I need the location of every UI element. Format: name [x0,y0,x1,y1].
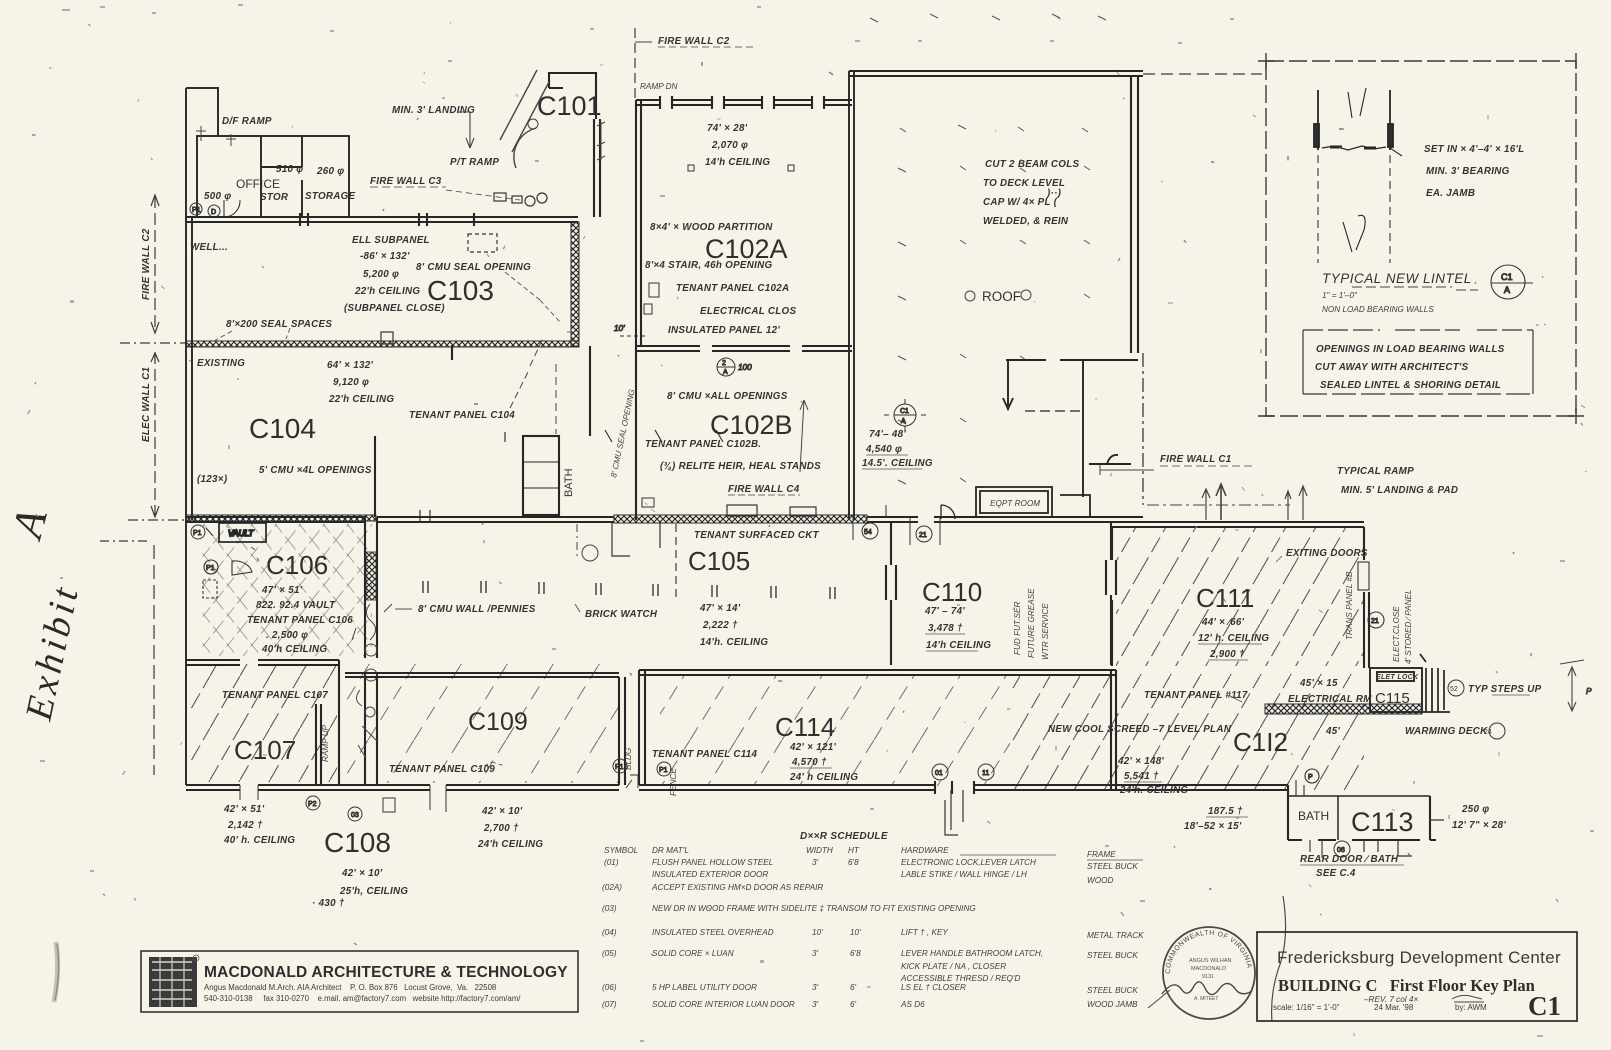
leader lines C103 [214,272,560,341]
room C110 notes [924,606,991,651]
svg-text:45' × 15: 45' × 15 [1299,678,1338,689]
svg-text:MIN. 3' LANDING: MIN. 3' LANDING [392,105,475,116]
svg-text:AS D6: AS D6 [900,1000,925,1009]
svg-text:BATH: BATH [1298,809,1329,823]
svg-text:C101: C101 [537,91,602,121]
leader arrow C105 note [395,604,580,612]
svg-text:LABLE STIKE / WALL HINGE /: LABLE STIKE / WALL HINGE / LH [901,870,1027,879]
C107 area dims [223,804,295,846]
svg-text:14'h. CEILING: 14'h. CEILING [700,637,768,648]
svg-text:4,570 †: 4,570 † [791,757,827,768]
svg-text:(04): (04) [602,928,617,937]
room C102B notes [645,391,821,495]
door swing below C114 south wall [945,790,963,835]
svg-text:(SUBPANEL CLOSE): (SUBPANEL CLOSE) [344,303,445,314]
svg-text:TYPICAL RAMP: TYPICAL RAMP [1337,466,1414,477]
svg-text:REAR DOOR ∕ BATH: REAR DOOR ∕ BATH [1300,854,1399,865]
svg-text:8'×200 SEAL SPACES: 8'×200 SEAL SPACES [226,319,332,330]
svg-text:8' CMU ×ALL OPENINGS: 8' CMU ×ALL OPENINGS [667,391,788,402]
svg-text:24 Mar. '98: 24 Mar. '98 [1374,1003,1414,1012]
svg-text:ELECTRICAL CLOS: ELECTRICAL CLOS [700,306,796,317]
note TYPICAL RAMP [1337,466,1458,496]
svg-text:TENANT PANEL C107: TENANT PANEL C107 [222,690,328,701]
svg-text:WIDTH: WIDTH [806,846,833,855]
svg-text:VAULT: VAULT [228,529,254,538]
svg-text:MACDONALD ARCHITECTURE & TECHN: MACDONALD ARCHITECTURE & TECHNOLOGY [204,964,568,981]
svg-text:WARMING DECK: WARMING DECK [1405,726,1488,737]
lower band north wall (C107/C109/C114 top) [186,660,1116,790]
svg-text:EQPT ROOM: EQPT ROOM [990,499,1040,508]
hatched floor region room C111 [1116,526,1364,666]
west property dashed line [100,195,186,775]
door cluster near C101 [468,193,547,252]
svg-text:TRANS PANEL #B: TRANS PANEL #B [1345,571,1354,640]
note typ steps up [1448,680,1542,696]
door ticks C104 south [420,430,723,522]
room C106 notes [247,585,353,655]
svg-text:18'–52 × 15': 18'–52 × 15' [1184,821,1242,832]
svg-text:14'h CEILING: 14'h CEILING [705,157,770,168]
svg-text:FLUSH PANEL HOLLOW STEEL: FLUSH PANEL HOLLOW STEEL [652,858,773,867]
C114 south wall with door gaps [639,781,1288,794]
svg-text:SYMBOL: SYMBOL [604,846,638,855]
svg-text:P1: P1 [193,530,202,537]
dim ticks between C101 and C102A [597,122,605,160]
svg-text:STEEL BUCK: STEEL BUCK [1087,862,1138,871]
svg-text:INSULATED PANEL 12': INSULATED PANEL 12' [668,325,780,336]
svg-text:FUD FUT.SER: FUD FUT.SER [1013,602,1022,655]
main corridor wall (middle band north) [186,517,1143,522]
svg-text:METAL TRACK: METAL TRACK [1087,931,1144,940]
svg-text:2,222 †: 2,222 † [702,620,738,631]
svg-text:(02A): (02A) [602,883,622,892]
svg-text:44' × ∕66': 44' × ∕66' [1201,617,1245,628]
svg-text:MIN. 5' LANDING & PAD: MIN. 5' LANDING & PAD [1341,485,1458,496]
svg-text:EA. JAMB: EA. JAMB [1426,188,1475,199]
svg-text:C115: C115 [1375,690,1410,707]
svg-text:9131: 9131 [1202,974,1214,980]
svg-text:WTR SERVICE: WTR SERVICE [1041,603,1050,660]
svg-text:2,142 †: 2,142 † [227,820,263,831]
svg-text:47' × 51': 47' × 51' [261,585,303,596]
svg-text:C103: C103 [427,275,494,306]
room C112 notes [1048,690,1248,796]
svg-text:12' 7" × 28': 12' 7" × 28' [1452,820,1506,831]
room C101 outline [549,73,600,217]
C109 area dims [477,806,543,850]
svg-text:BLDG: BLDG [624,747,633,770]
svg-text:SOLID CORE INTERIOR LUAN DOO: SOLID CORE INTERIOR LUAN DOOR [652,1000,795,1009]
svg-text:3': 3' [812,858,819,867]
svg-text:KICK PLATE / NA , CLOSER: KICK PLATE / NA , CLOSER [901,962,1006,971]
svg-text:8×4' × WOOD PARTITION: 8×4' × WOOD PARTITION [650,222,773,233]
dark jamb segment [366,552,376,600]
svg-text:SEE C.4: SEE C.4 [1316,868,1356,879]
svg-text:5 HP LABEL UTILITY DOOR: 5 HP LABEL UTILITY DOOR [652,983,757,992]
hatched floor region room C107 [190,664,337,782]
svg-text:· 430 †: · 430 † [312,898,345,909]
door schedule row 01 [604,858,1138,885]
svg-text:EXISTING: EXISTING [197,358,245,369]
svg-text:STEEL BUCK: STEEL BUCK [1087,951,1138,960]
svg-text:NEW COOL SCREED –7 LEVEL PLAN: NEW COOL SCREED –7 LEVEL PLAN [1048,724,1232,735]
svg-text:C105: C105 [688,546,750,576]
svg-text:822. 92.4 VAULT: 822. 92.4 VAULT [256,600,336,611]
room C103 south thick wall [186,341,579,347]
squiggly door center marks [352,604,392,758]
ticks below C113 [1364,820,1444,856]
svg-text:(06): (06) [602,983,617,992]
svg-text:OPENINGS IN LOAD BEARING WALLS: OPENINGS IN LOAD BEARING WALLS [1316,344,1505,355]
svg-text:A. MITEET: A. MITEET [1194,996,1218,1002]
svg-text:OFFICE: OFFICE [236,177,280,191]
room C104 south thick wall [186,515,376,521]
roof dim notes [862,429,933,469]
svg-text:STORAGE: STORAGE [305,191,356,202]
outer west wall [186,88,218,785]
svg-text:NON LOAD BEARING WALLS: NON LOAD BEARING WALLS [1322,305,1434,314]
door keys P1 on C114 west [613,759,671,788]
svg-text:100: 100 [738,363,752,372]
svg-text:C1I2: C1I2 [1233,727,1288,757]
svg-text:C1: C1 [1501,272,1513,282]
svg-text:C111: C111 [1196,583,1254,613]
room C114 notes [652,742,858,783]
svg-text:)··): )··) [1046,188,1061,199]
svg-text:ACCESSIBLE THRESD / REQ'D: ACCESSIBLE THRESD / REQ'D [900,974,1020,983]
svg-text:Angus Macdonald M.Arch. AIA Ar: Angus Macdonald M.Arch. AIA Architect P.… [204,983,496,992]
svg-text:03: 03 [351,812,359,819]
divider wall C102A/C102B [636,346,852,351]
svg-text:LIFT † , KEY: LIFT † , KEY [901,928,948,937]
door and trans panel east C111 [1358,562,1384,628]
svg-text:5,200 φ: 5,200 φ [363,269,399,280]
roof column tick grid [870,14,1106,484]
svg-text:52: 52 [1450,686,1458,693]
svg-text:P: P [1586,687,1592,696]
svg-text:2,900 †: 2,900 † [1209,649,1245,660]
svg-text:D/F RAMP: D/F RAMP [222,116,272,127]
svg-text:INSULATED STEEL OVERHEAD: INSULATED STEEL OVERHEAD [652,928,774,937]
svg-text:NEW DR IN WOOD FRAME WITH S: NEW DR IN WOOD FRAME WITH SIDELITE ‡ TRA… [652,904,976,913]
note electrical room [1288,674,1419,705]
svg-text:24'h. CEILING: 24'h. CEILING [1119,785,1188,796]
svg-text:3,478 †: 3,478 † [928,623,963,634]
drawing title scale line [1273,1003,1487,1012]
room C102A north wall with openings [636,96,852,109]
svg-text:1" = 1'–0": 1" = 1'–0" [1322,291,1358,300]
svg-text:D: D [211,209,216,216]
svg-text:–REV. 7 col 4×: –REV. 7 col 4× [1363,995,1418,1004]
svg-text:42' × 121': 42' × 121' [789,742,836,753]
svg-text:74' × 28': 74' × 28' [707,123,748,134]
svg-text:8' CMU SEAL OPENING: 8' CMU SEAL OPENING [416,262,531,273]
fire wall dash at C105 west [675,524,677,600]
rotated note elect close [1392,589,1413,664]
svg-text:SET IN × 4'–4' × 16'L: SET IN × 4'–4' × 16'L [1424,144,1524,155]
wall C106 east (double with dark jamb) [365,517,377,785]
svg-text:01: 01 [935,770,943,777]
office area SF notes [204,164,356,203]
svg-text:LS EL † CLOSER: LS EL † CLOSER [901,983,966,992]
dim ticks above office [196,126,236,146]
small squares in C102A [644,165,794,314]
svg-text:45': 45' [1325,726,1340,737]
door schedule row 07 [602,1000,1138,1009]
svg-text:FIRE WALL C4: FIRE WALL C4 [728,484,800,495]
svg-text:A: A [723,369,728,376]
jamb marks left of C102B [614,324,654,507]
svg-text:P/T RAMP: P/T RAMP [450,157,499,168]
svg-text:2,070 φ: 2,070 φ [711,140,748,151]
note box text [1315,344,1505,391]
svg-text:TENANT PANEL C102B.: TENANT PANEL C102B. [645,439,761,450]
room label ROOF [965,289,1031,304]
svg-text:9,120 φ: 9,120 φ [333,377,369,388]
svg-text:3': 3' [812,983,819,992]
svg-text:P: P [1308,774,1313,781]
door key P1 at vault [191,525,213,539]
svg-text:500 φ: 500 φ [204,191,231,202]
svg-text:TENANT SURFACED CKT: TENANT SURFACED CKT [694,530,820,541]
svg-text:ELL SUBPANEL: ELL SUBPANEL [352,235,430,246]
stray pen curve [1272,896,1286,1022]
door circle 21 on corridor [910,517,940,545]
virginia stamp [1148,927,1255,1019]
svg-text:10': 10' [850,928,861,937]
svg-text:ELECTRONIC LOCK,LEVER LATCH: ELECTRONIC LOCK,LEVER LATCH [901,858,1036,867]
svg-text:BATH: BATH [563,468,575,497]
svg-text:3': 3' [812,949,819,958]
svg-text:C113: C113 [1351,807,1414,837]
svg-text:24' h CEILING: 24' h CEILING [789,772,858,783]
svg-text:(07): (07) [602,1000,617,1009]
svg-text:42' × 148': 42' × 148' [1117,756,1164,767]
svg-text:C107: C107 [234,735,296,765]
small box on C103 south wall [381,332,393,344]
roof interior partition walls [941,360,1138,519]
svg-text:FIRE WALL C2: FIRE WALL C2 [658,36,730,47]
landing arrow [458,112,474,148]
svg-text:SEALED LINTEL & SHORING DETAIL: SEALED LINTEL & SHORING DETAIL [1320,380,1501,391]
note rear door and bath [1300,854,1399,879]
svg-text:10': 10' [812,928,823,937]
svg-text:HT: HT [848,846,860,855]
office block top-left [197,136,349,217]
architect title block [141,951,578,1012]
svg-text:C1: C1 [1528,991,1561,1021]
svg-text:C106: C106 [266,550,328,580]
svg-text:STEEL BUCK: STEEL BUCK [1087,986,1138,995]
svg-text:11: 11 [982,770,989,777]
svg-text:22'h CEILING: 22'h CEILING [354,286,420,297]
svg-text:P1: P1 [192,207,201,214]
hatched floor region room C112 [1012,674,1364,790]
svg-text:FIRE WALL C2: FIRE WALL C2 [141,228,152,300]
svg-text:6': 6' [850,983,857,992]
svg-text:. 2,500 φ: . 2,500 φ [266,630,308,641]
svg-text:(123×): (123×) [197,474,227,485]
door schedule row 04 [602,928,1144,940]
svg-text:C108: C108 [324,827,391,858]
svg-text:14'h CEILING: 14'h CEILING [926,640,991,651]
door schedule row 03 [602,904,976,913]
door key 06 below C113 [1334,841,1350,857]
roof east wall [1131,76,1138,353]
door schedule row 02A [602,883,823,892]
equipment room boxes at roof south [976,487,1090,517]
note warming deck [1405,723,1505,739]
svg-text:C114: C114 [775,712,835,742]
vertical dim arrow far right [1560,660,1592,711]
door schedule row 05 [602,949,1138,983]
hatched band south of C115 [1265,704,1422,714]
svg-text:C110: C110 [922,577,982,607]
room C105 notes [418,530,820,648]
paper fold streak [54,942,58,1002]
svg-text:47' × 14': 47' × 14' [699,603,741,614]
ref circle C1/A [1491,265,1533,299]
detail box border (typical new lintel) [1258,53,1584,424]
door circle 54 on corridor [853,505,886,540]
roof notes [983,159,1079,227]
svg-text:INSULATED EXTERIOR DOOR: INSULATED EXTERIOR DOOR [652,870,768,879]
svg-text:6': 6' [850,1000,857,1009]
C113 dims [1452,804,1506,831]
svg-text:A: A [1504,285,1510,295]
svg-text:12' h. CEILING: 12' h. CEILING [1198,633,1269,644]
room C102A notes [645,123,796,336]
room C109 east wall (bldg line) [619,677,625,785]
svg-text:RAMP UP: RAMP UP [321,724,330,762]
svg-text:TENANT PANEL C104: TENANT PANEL C104 [409,410,515,421]
svg-text:54: 54 [864,529,872,536]
svg-text:LEVER HANDLE BATHROOM LATCH,: LEVER HANDLE BATHROOM LATCH, [901,949,1043,958]
svg-text:64' × 132': 64' × 132' [327,360,373,371]
room C104 notes [197,358,515,485]
svg-text:CUT AWAY WITH ARCHITECT'S: CUT AWAY WITH ARCHITECT'S [1315,362,1469,373]
svg-text:WELL...: WELL... [190,242,228,253]
svg-text:TENANT PANEL C109: TENANT PANEL C109 [389,764,495,775]
svg-text:540-310-0138 fax 310-0270: 540-310-0138 fax 310-0270 e.mail. am@fac… [204,994,521,1003]
room C107 walls [186,660,619,790]
svg-text:FIRE WALL C3: FIRE WALL C3 [370,176,442,187]
svg-text:TENANT PANEL #117: TENANT PANEL #117 [1144,690,1248,701]
svg-text:(01): (01) [604,858,619,867]
Exhibit A handwriting [2,503,88,725]
hatched floor region room C109 [345,664,619,783]
svg-text:14.5'. CEILING: 14.5'. CEILING [862,458,933,469]
svg-text:10': 10' [614,324,625,333]
svg-text:510 φ: 510 φ [276,164,303,175]
svg-text:C109: C109 [468,708,528,736]
svg-text:D××R SCHEDULE: D××R SCHEDULE [800,831,888,842]
drawing title block [1257,932,1577,1021]
svg-text:42' × 10': 42' × 10' [341,868,383,879]
svg-text:TENANT PANEL C106: TENANT PANEL C106 [247,615,353,626]
svg-text:P1: P1 [206,565,215,572]
hatched floor region room C106 [200,524,372,656]
svg-text:260 φ: 260 φ [316,166,344,177]
svg-text:3': 3' [812,1000,819,1009]
door keys 01 and 11 on C114 south [932,764,994,780]
svg-text:(05): (05) [602,949,617,958]
svg-text:TYPICAL NEW LINTEL: TYPICAL NEW LINTEL [1322,271,1472,286]
room C112 walls [1288,785,1436,840]
svg-text:8'×4 STAIR, 46h OPENING: 8'×4 STAIR, 46h OPENING [645,260,773,271]
svg-text:24: 24 [1484,729,1492,736]
svg-text:40'h CEILING: 40'h CEILING [261,644,327,655]
bath dims [1184,806,1243,832]
room C111 notes [1198,548,1368,660]
svg-text:WOOD JAMB: WOOD JAMB [1087,1000,1138,1009]
svg-text:ROOF: ROOF [982,289,1021,304]
svg-text:C1: C1 [900,408,909,415]
roof ref circle with dim [884,399,926,431]
svg-text:06: 06 [1337,847,1345,854]
svg-text:BRICK WATCH: BRICK WATCH [585,609,658,620]
svg-text:74'– 48': 74'– 48' [869,429,906,440]
door keys office left [190,203,220,217]
svg-text:RAMP DN: RAMP DN [640,82,678,91]
svg-text:MIN. 3' BEARING: MIN. 3' BEARING [1426,166,1510,177]
svg-text:(03): (03) [602,904,617,913]
lintel notes right [1424,144,1524,199]
svg-text:22'h CEILING: 22'h CEILING [328,394,394,405]
svg-text:ELECT.CLOSE: ELECT.CLOSE [1392,606,1401,662]
underline fire wall C4 [728,494,800,496]
svg-text:187.5 †: 187.5 † [1208,806,1243,817]
svg-text:WOOD: WOOD [1087,876,1113,885]
note FIRE WALL C1 [1100,454,1253,475]
rotated notes future service [1013,588,1050,660]
svg-text:ELECTRICAL RM: ELECTRICAL RM [1288,694,1372,705]
svg-text:6'8: 6'8 [848,858,859,867]
svg-text:MACDONALD: MACDONALD [1191,966,1226,972]
note FIRE WALL C2 top [635,36,756,47]
room C103 top wall [186,213,578,226]
door swing west C106 [203,560,252,598]
svg-text:scale: 1/16" = 1'-0": scale: 1/16" = 1'-0" [1273,1003,1340,1012]
title TYPICAL NEW LINTEL [1322,271,1478,314]
svg-text:TENANT PANEL C114: TENANT PANEL C114 [652,749,758,760]
svg-text:21: 21 [1371,618,1379,625]
svg-text:Fredericksburg Development Cen: Fredericksburg Development Center [1277,948,1561,967]
door leafs above corridor wall [612,505,816,556]
svg-text:DR MAT'L: DR MAT'L [652,846,689,855]
svg-text:CUT 2 BEAM COLS: CUT 2 BEAM COLS [985,159,1079,170]
bath door bits [1296,769,1322,858]
vault box room C106 [219,523,266,542]
svg-text:STOR: STOR [260,192,289,203]
arrow up in C102B [800,400,808,472]
svg-text:P1: P1 [615,764,624,771]
door schedule header row [604,846,1116,859]
C108 dims [312,868,408,909]
room C103 notes [190,235,531,330]
svg-text:2,700 †: 2,700 † [483,823,519,834]
door schedule row 06 [602,983,1138,995]
room C103 east thick wall [571,222,579,346]
ref circle 1/A in C102A [717,358,752,376]
lintel detail drawing [1314,88,1402,263]
note box inside detail [1303,330,1533,394]
svg-text:by: AWM: by: AWM [1455,1003,1487,1012]
svg-text:6'8: 6'8 [850,949,861,958]
note FIRE WALL C3 [370,176,520,200]
svg-text:5,541 †: 5,541 † [1124,771,1159,782]
rev note handwriting [1363,995,1418,1004]
